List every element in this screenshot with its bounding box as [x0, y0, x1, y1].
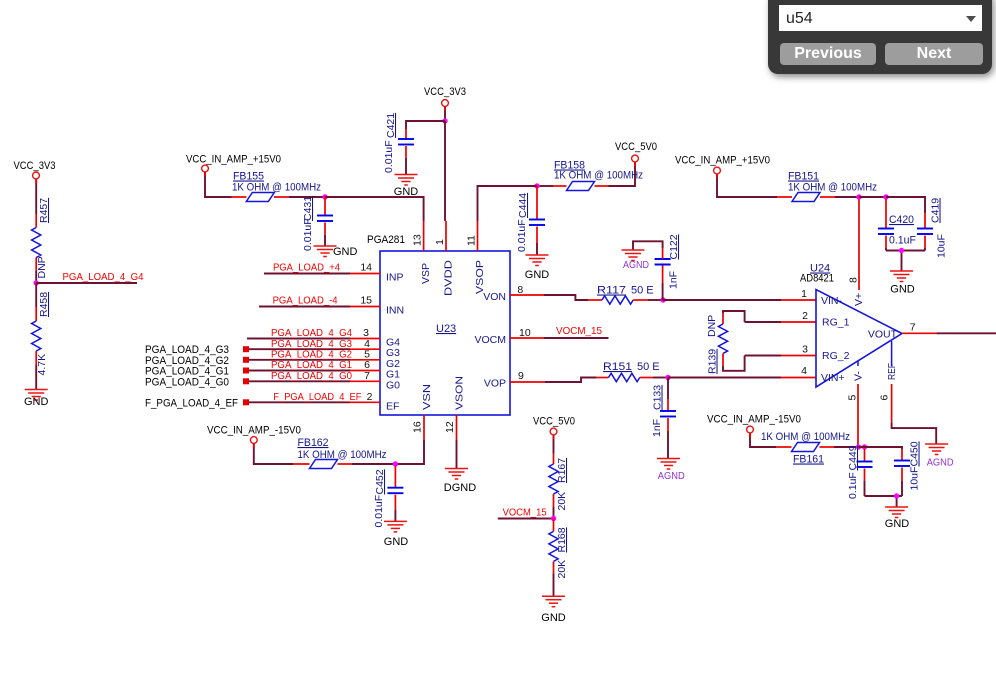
pin stub R167 bottom: [553, 494, 555, 507]
svg-text:10uF: 10uF: [909, 467, 921, 491]
svg-text:C419: C419: [930, 198, 942, 223]
junction node C420 tap: [883, 194, 888, 199]
ground GND (left divider): [25, 390, 48, 401]
pin number 14 (INP): [360, 262, 372, 274]
svg-text:VCC_5V0: VCC_5V0: [533, 416, 575, 428]
label C421: [385, 113, 397, 138]
svg-text:VIN+: VIN+: [821, 372, 845, 384]
power pin tick VCC_5V0 bottom: [553, 435, 555, 440]
wire R139 bottom jog to RG_2: [723, 356, 745, 371]
label 10uF (C419 value): [936, 234, 948, 258]
capacitor C431: [317, 216, 333, 222]
svg-text:20K: 20K: [556, 492, 568, 511]
svg-text:C122: C122: [668, 234, 680, 259]
pin stub C420 top: [885, 199, 887, 229]
power pin tick VCC_IN_AMP_+15V0 left: [204, 172, 206, 177]
net label VCC_5V0 (top): [615, 141, 657, 153]
junction node C122 tap: [660, 297, 665, 302]
resistor R117: [602, 296, 633, 304]
net label PGA_LOAD_4_G1 (red): [271, 359, 352, 371]
label C449: [847, 445, 859, 470]
label R168: [556, 527, 568, 552]
svg-text:RG_1: RG_1: [822, 317, 850, 329]
svg-text:0.01uF: 0.01uF: [373, 495, 385, 528]
net label PGA_LOAD_+4: [273, 262, 340, 274]
ground AGND (REF): [925, 444, 948, 455]
net label VOCM_15 (mid): [556, 325, 602, 337]
wire R168 to ground: [553, 574, 555, 597]
svg-text:4.7K: 4.7K: [36, 354, 48, 376]
svg-text:VOCM: VOCM: [475, 334, 507, 346]
pin number 16 (VSN): [412, 421, 424, 433]
svg-text:VOUT: VOUT: [868, 329, 898, 341]
offpage connector square PGA_LOAD_4_G3: [243, 346, 249, 352]
svg-text:DVDD: DVDD: [443, 260, 455, 296]
svg-text:1K OHM @ 100MHz: 1K OHM @ 100MHz: [554, 170, 643, 182]
label 0.01uF (C421 value): [383, 140, 395, 173]
capacitor C450: [894, 461, 910, 467]
pin VOCM stub: [510, 337, 544, 339]
pin name V- tick: [857, 361, 859, 366]
wire RG_2 row: [745, 355, 781, 357]
capacitor C421: [398, 139, 414, 145]
wire RG_1 jog to R139 top: [723, 311, 745, 322]
wire net VOCM_15 stub (bottom): [498, 518, 554, 520]
pin stub C450 bottom: [901, 468, 903, 481]
label C450: [909, 441, 921, 466]
svg-text:2: 2: [802, 310, 808, 322]
power pin tick VCC_3V3 top: [444, 107, 446, 112]
svg-text:1K OHM @ 100MHz: 1K OHM @ 100MHz: [232, 182, 321, 194]
svg-text:R139: R139: [707, 349, 719, 374]
net label PGA_LOAD_4_G0 (red): [271, 370, 352, 382]
pin stub FB161 right: [820, 446, 835, 448]
wire rail C449/C450 to GND: [865, 496, 903, 507]
pin VON stub: [510, 294, 544, 296]
svg-text:0.01uF: 0.01uF: [383, 140, 395, 173]
junction node VCC_3V3/C421: [442, 118, 447, 123]
label 1K OHM @ 100MHz (FB155): [232, 182, 321, 194]
pin number 5 (V-): [847, 395, 859, 401]
net label PGA_LOAD_4_G0 (black): [145, 376, 229, 388]
label 1K OHM @ 100MHz (FB151): [788, 182, 877, 194]
wire C431 to ground: [324, 235, 326, 246]
svg-text:VCC_3V3: VCC_3V3: [14, 160, 56, 172]
wire C419 bottom to rail: [924, 248, 926, 251]
pin number 4 (G3): [364, 338, 370, 350]
wire VCC_3V3 to R457: [35, 179, 37, 214]
pin name G1: [386, 369, 400, 381]
wire C452 to ground: [394, 509, 396, 521]
junction node C431 tap: [322, 194, 327, 199]
label 0.1uF (C449 value): [847, 472, 859, 499]
svg-text:12: 12: [444, 421, 456, 433]
pin stub C450 top: [901, 449, 903, 461]
ground DGND: [445, 469, 468, 480]
svg-text:V-: V-: [853, 371, 865, 381]
power pin tick VCC_IN_AMP_+15V0 right: [716, 174, 718, 179]
ferrite bead FB162: [310, 460, 338, 469]
pin number 3 (RG_2): [802, 344, 808, 356]
pin name G2: [386, 358, 400, 370]
svg-text:VOCM_15: VOCM_15: [503, 507, 547, 519]
pin name RG_1: [822, 317, 850, 329]
capacitor C419: [917, 229, 933, 235]
pin stub FB161 left: [776, 446, 792, 448]
svg-text:1: 1: [801, 288, 807, 300]
label AGND (C133): [658, 471, 685, 482]
pin name VON: [483, 291, 506, 303]
label GND (C449/C450): [885, 518, 910, 530]
svg-text:1nF: 1nF: [651, 419, 663, 437]
wire VSON to DGND: [456, 440, 458, 469]
pin number 4 (VIN+): [801, 365, 807, 377]
label AGND (C122): [623, 260, 649, 271]
pin name V-: [853, 371, 865, 381]
pin stub R457 bottom: [35, 258, 37, 272]
pin number 11 (VSOP): [466, 235, 478, 246]
pin G2 stub: [350, 359, 380, 361]
power port VCC_IN_AMP_+15V0 (right): [714, 167, 721, 174]
ground AGND (C133): [657, 459, 680, 470]
pin G3 stub: [350, 348, 380, 350]
offpage connector square PGA_LOAD_4_G1: [243, 368, 249, 374]
net label VCC_5V0 (bottom): [533, 416, 575, 428]
svg-text:F_PGA_LOAD_4_EF: F_PGA_LOAD_4_EF: [273, 391, 361, 403]
pin name INP: [386, 272, 404, 284]
svg-text:C450: C450: [909, 441, 921, 466]
pin stub FB155 left: [232, 196, 247, 198]
svg-text:GND: GND: [24, 396, 49, 408]
net label PGA_LOAD_4_G1 (black): [145, 366, 229, 378]
wire junction to VIN+: [668, 377, 781, 379]
net label VCC_IN_AMP_-15V0 (left): [207, 425, 301, 437]
net label F_PGA_LOAD_4_EF (red): [273, 391, 361, 403]
wire net PGA_LOAD_4_G2: [249, 359, 350, 361]
power pin tick VCC_IN_AMP_-15V0 right: [749, 433, 751, 438]
svg-text:10uF: 10uF: [936, 234, 948, 258]
wire power port to R167: [553, 435, 555, 454]
pin stub C431 top: [324, 197, 326, 216]
pin VOP stub: [510, 381, 545, 383]
svg-text:50 E: 50 E: [631, 285, 654, 297]
label GND (C421): [394, 186, 419, 198]
wire rail C420/C419 to GND: [886, 251, 925, 272]
svg-text:VSON: VSON: [454, 376, 466, 410]
resistor R457: [32, 228, 41, 258]
wire REF to AGND: [892, 423, 937, 444]
ferrite bead FB158: [567, 182, 595, 191]
pin stub FB151 left: [777, 196, 792, 198]
pin stub R151 left: [597, 377, 609, 379]
wire net F_PGA_LOAD_4_EF: [249, 401, 350, 403]
capacitor C122: [655, 259, 671, 265]
pin name VSON: [454, 376, 466, 410]
label GND (C452): [384, 536, 409, 548]
label R139: [707, 349, 719, 374]
svg-text:DNP: DNP: [706, 315, 718, 337]
pin name EF: [386, 400, 399, 412]
svg-text:1K OHM @ 100MHz: 1K OHM @ 100MHz: [298, 449, 387, 461]
label 50 E (R117 value): [631, 285, 654, 297]
net label PGA_LOAD_4_G2 (red): [271, 348, 352, 360]
label C133: [652, 385, 664, 410]
wire power port to FB155: [205, 172, 232, 197]
label AD8421: [800, 273, 834, 285]
pin number 8 (VON): [517, 284, 523, 296]
label DNP (R139 value): [706, 315, 718, 337]
wire R458 to ground: [35, 365, 37, 390]
label U23: [436, 323, 456, 335]
pin stub C449 bottom: [864, 469, 866, 481]
wire junction to R458: [35, 283, 37, 307]
svg-text:VCC_IN_AMP_-15V0: VCC_IN_AMP_-15V0: [707, 414, 801, 426]
svg-text:0.01uF: 0.01uF: [516, 219, 528, 252]
pin number 12 (VSON): [444, 421, 456, 433]
wire net PGA_LOAD_+4: [264, 273, 350, 275]
pin number 2 (EF): [367, 391, 373, 403]
net label F_PGA_LOAD_4_EF (black): [145, 398, 238, 410]
label R458: [38, 292, 50, 317]
pin stub C133 top: [667, 399, 669, 411]
pin number 7 (VOUT): [910, 322, 916, 334]
pin number 7 (G0): [364, 370, 370, 382]
label DGND: [444, 482, 476, 494]
capacitor C449: [857, 462, 873, 468]
wire R457 to junction: [35, 271, 37, 283]
offpage connector square PGA_LOAD_4_G0: [243, 378, 249, 384]
wire FB162 to junction: [352, 463, 395, 465]
svg-text:2: 2: [367, 391, 373, 403]
pin name V+: [853, 293, 865, 306]
svg-text:5: 5: [847, 395, 859, 401]
label C452: [374, 469, 386, 494]
wire VCC_3V3 junction to DVDD pin: [444, 121, 446, 221]
pin name REF: [886, 363, 898, 380]
svg-text:GND: GND: [890, 284, 915, 296]
pin stub VIN- (U24 pin 1): [781, 299, 816, 301]
net label VCC_IN_AMP_-15V0 (right): [707, 414, 801, 426]
pin stub RG_1 (U24 pin 2): [781, 321, 816, 323]
svg-text:VSP: VSP: [420, 263, 432, 284]
pin name VOP: [484, 378, 506, 390]
svg-text:8: 8: [848, 277, 860, 283]
svg-text:R458: R458: [38, 292, 50, 317]
pin name G4: [386, 337, 400, 349]
wire R117 to junction: [648, 299, 663, 301]
power pin tick VCC_5V0 top: [634, 162, 636, 167]
svg-text:13: 13: [412, 234, 424, 246]
junction node rail GND tap (C449/C450): [894, 493, 899, 498]
wire power port to FB158: [609, 162, 636, 186]
svg-text:3: 3: [802, 344, 808, 356]
pin stub R139 top: [722, 313, 724, 324]
pin INN stub: [350, 306, 380, 308]
wire junction to VIN-: [663, 299, 781, 301]
svg-text:PGA_LOAD_4_G0: PGA_LOAD_4_G0: [145, 376, 229, 388]
wire junction to VSP corner: [325, 197, 424, 221]
pin G4 stub: [350, 338, 380, 340]
power pin tick VCC_IN_AMP_-15V0 left: [253, 444, 255, 449]
pin number 10 (VOCM): [519, 327, 531, 339]
svg-text:1K OHM @ 100MHz: 1K OHM @ 100MHz: [761, 431, 850, 443]
pin name VIN+: [821, 372, 845, 384]
pin stub C419 bottom: [924, 236, 926, 249]
svg-text:1nF: 1nF: [668, 271, 680, 289]
svg-text:G0: G0: [386, 379, 400, 391]
ground GND (C452): [384, 521, 407, 532]
svg-text:C420: C420: [889, 214, 914, 226]
capacitor C444: [529, 220, 545, 226]
pin stub FB158 right: [595, 185, 609, 187]
wire C421 to ground: [405, 158, 407, 175]
wire C133 top: [667, 378, 669, 400]
svg-text:R168: R168: [556, 527, 568, 552]
wire RG_1 row: [745, 321, 781, 323]
svg-text:GND: GND: [384, 536, 409, 548]
label C419: [930, 198, 942, 223]
ferrite bead FB161: [792, 443, 820, 452]
svg-text:VOCM_15: VOCM_15: [556, 325, 602, 337]
wire net VOCM_15 (from VOCM pin): [544, 337, 609, 339]
resistor R151: [609, 373, 640, 381]
svg-text:VCC_IN_AMP_+15V0: VCC_IN_AMP_+15V0: [675, 155, 770, 167]
svg-text:C421: C421: [385, 113, 397, 138]
label GND (C444): [525, 269, 550, 281]
op-amp chip U23 PGA281 body: [380, 251, 510, 415]
wire C122 to AGND: [633, 241, 663, 250]
svg-text:C452: C452: [374, 469, 386, 494]
pin stub FB151 right: [820, 196, 835, 198]
search input u54: [779, 5, 982, 31]
net label PGA_LOAD_4_G4 (at G4): [271, 327, 352, 339]
pin name VOCM: [475, 334, 507, 346]
pin number 1 (VIN-): [801, 288, 807, 300]
power port VCC_5V0 (top): [632, 155, 639, 162]
pin name G0: [386, 379, 400, 391]
svg-text:U23: U23: [436, 323, 456, 335]
wire C122 bottom: [662, 283, 664, 300]
label 0.1uF (C420 value): [889, 235, 916, 247]
svg-text:VOP: VOP: [484, 378, 506, 390]
svg-text:VCC_5V0: VCC_5V0: [615, 141, 657, 153]
offpage connector square PGA_LOAD_4_G2: [243, 357, 249, 363]
pin name VOUT: [868, 329, 898, 341]
svg-text:AGND: AGND: [658, 471, 685, 482]
svg-text:VCC_3V3: VCC_3V3: [424, 86, 466, 98]
svg-text:AGND: AGND: [927, 458, 954, 469]
pin stub FB158 left: [553, 185, 567, 187]
pin stub C444 bottom: [536, 227, 538, 244]
junction node C133 tap: [665, 375, 670, 380]
svg-text:V+: V+: [853, 293, 865, 306]
wire power port to FB161: [750, 433, 776, 447]
pin INP stub: [350, 273, 380, 275]
label 0.01uF (C431 value): [302, 218, 314, 251]
ground AGND (C122): [622, 250, 645, 261]
wire FB151 to V+ junction: [835, 196, 859, 198]
svg-text:GND: GND: [333, 246, 358, 258]
capacitor C133: [660, 411, 676, 417]
label FB158: [554, 160, 585, 172]
power port VCC_5V0 (bottom): [550, 428, 557, 435]
power port VCC_IN_AMP_-15V0 (right): [747, 426, 754, 433]
pin stub R168 top: [553, 519, 555, 532]
pin stub R457 top: [35, 214, 37, 228]
svg-text:1K OHM @ 100MHz: 1K OHM @ 100MHz: [788, 182, 877, 194]
net label VCC_3V3 (top): [424, 86, 466, 98]
pin stub RG_2 (U24 pin 3): [781, 355, 816, 357]
wire FB158 to junction: [537, 185, 553, 187]
svg-text:PGA_LOAD_+4: PGA_LOAD_+4: [273, 262, 340, 274]
label AGND (REF): [927, 458, 954, 469]
power port VCC_IN_AMP_-15V0 (left): [250, 437, 257, 444]
net label VCC_3V3 (left): [14, 160, 56, 172]
power port VCC_IN_AMP_+15V0 (left): [202, 165, 209, 172]
wire net PGA_LOAD_-4: [259, 306, 350, 308]
label FB161: [793, 454, 824, 466]
wire C420 bottom to rail: [885, 248, 887, 251]
pin number 5 (G2): [364, 348, 370, 360]
label 0.01uF (C444 value): [516, 219, 528, 252]
pin number 9 (VOP): [518, 370, 524, 382]
net label VCC_IN_AMP_+15V0 (left): [186, 154, 281, 166]
wire net PGA_LOAD_4_G1: [249, 370, 350, 372]
svg-text:6: 6: [879, 395, 891, 401]
label C444: [517, 193, 529, 218]
pin stub R458 bottom: [35, 351, 37, 365]
pin REF stub (6): [891, 384, 893, 423]
pin stub R458 top: [35, 307, 37, 321]
resistor R168: [549, 531, 558, 561]
pin V+ stub (8): [858, 197, 860, 290]
wire R151 to junction: [653, 377, 668, 379]
label R117: [597, 285, 626, 297]
wire net stub PGA_LOAD_4_G4: [36, 282, 137, 284]
label 50 E (R151 value): [637, 361, 660, 373]
wire net PGA_LOAD_4_G0: [249, 380, 350, 382]
wire junction to VSOP corner: [478, 186, 538, 221]
net label PGA_LOAD_4_G2 (black): [145, 355, 229, 367]
label 1nF (C133 value): [651, 419, 663, 437]
ground GND (C420/C419): [890, 271, 913, 282]
svg-text:11: 11: [466, 235, 478, 246]
Next button: [885, 43, 983, 65]
svg-text:EF: EF: [386, 400, 399, 412]
ground GND (C444): [526, 255, 549, 266]
junction node C444 tap: [534, 183, 539, 188]
pin number 6 (REF): [879, 395, 891, 401]
dropdown caret: [966, 16, 976, 22]
svg-text:GND: GND: [885, 518, 910, 530]
svg-text:RG_2: RG_2: [822, 350, 850, 362]
pin stub R168 bottom: [553, 561, 555, 573]
label 4.7K (R458 value): [36, 354, 48, 376]
svg-text:R457: R457: [38, 198, 50, 223]
svg-text:4: 4: [801, 365, 807, 377]
pin stub C452 bottom: [394, 495, 396, 510]
Previous button: [780, 43, 876, 65]
pin stub R117 left: [588, 299, 602, 301]
svg-text:C431: C431: [302, 196, 314, 221]
svg-text:VSN: VSN: [421, 384, 433, 410]
label DNP (R457 value): [36, 256, 48, 278]
label GND (R168): [541, 612, 566, 624]
svg-text:INP: INP: [386, 272, 404, 284]
label FB162: [298, 437, 329, 449]
label 1K OHM @ 100MHz (FB161): [761, 431, 850, 443]
pin stub C133 bottom: [667, 418, 669, 431]
